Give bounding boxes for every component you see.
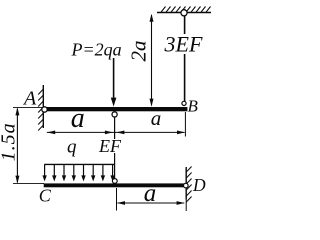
- svg-text:P=2qa: P=2qa: [71, 40, 122, 60]
- svg-text:1.5a: 1.5a: [0, 123, 20, 161]
- svg-text:a: a: [144, 180, 157, 207]
- svg-text:q: q: [67, 136, 77, 157]
- svg-text:a: a: [71, 103, 85, 134]
- svg-text:a: a: [151, 106, 162, 130]
- svg-text:A: A: [22, 88, 37, 110]
- svg-text:2a: 2a: [126, 41, 150, 62]
- svg-text:D: D: [192, 175, 206, 195]
- svg-text:3EF: 3EF: [164, 32, 203, 57]
- svg-text:B: B: [188, 97, 199, 116]
- svg-text:EF: EF: [98, 136, 122, 156]
- svg-text:C: C: [39, 186, 52, 206]
